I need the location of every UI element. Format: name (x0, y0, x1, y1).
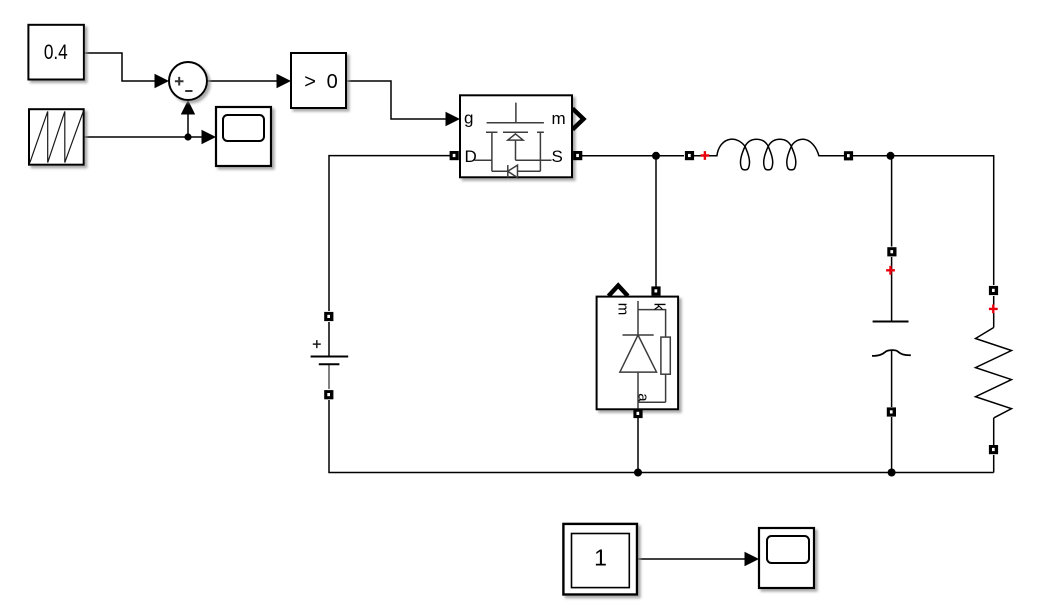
svg-text:S: S (552, 147, 563, 166)
svg-text:1: 1 (594, 545, 607, 571)
svg-text:D: D (465, 147, 477, 166)
svg-text:k: k (651, 303, 668, 311)
svg-text:m: m (552, 109, 566, 128)
svg-text:g: g (464, 109, 473, 128)
svg-text:> 0: > 0 (304, 71, 337, 93)
svg-text:m: m (615, 303, 632, 316)
svg-text:a: a (635, 393, 652, 402)
svg-text:0.4: 0.4 (44, 41, 68, 64)
